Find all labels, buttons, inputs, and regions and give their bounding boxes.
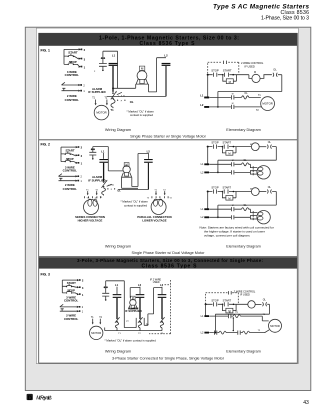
- bottom tie wire: [105, 328, 162, 331]
- control fuse stem wire: [102, 51, 104, 63]
- pushbutton START contact: [62, 284, 77, 287]
- svg-text:STOP: STOP: [211, 298, 218, 302]
- svg-text:Class 8536 Type S: Class 8536 Type S: [142, 263, 198, 269]
- M power contact 3: [238, 331, 240, 335]
- L2 power wire: [139, 298, 141, 318]
- M power contact 2: [231, 105, 234, 109]
- motor M1: [90, 326, 103, 339]
- coil M box label: [124, 163, 129, 167]
- svg-text:Elementary Diagram: Elementary Diagram: [226, 350, 261, 354]
- coil legs and bar: [136, 79, 149, 84]
- coil core box: [125, 173, 129, 177]
- svg-text:1-Phase, Size 00 to 3: 1-Phase, Size 00 to 3: [261, 16, 309, 22]
- row separator fig1/fig2: [39, 139, 298, 141]
- asterisk pointer arrow: [117, 92, 122, 94]
- wire: L2 bottom run: [118, 189, 148, 191]
- L2 terminal lug: [162, 63, 171, 64]
- coil M box label: [139, 66, 144, 70]
- 3-wire control: top wire to terminal 2: [62, 279, 77, 281]
- black header bar 1: [39, 33, 298, 46]
- svg-text:a b A: a b A: [108, 184, 114, 187]
- L1 rung wire: [209, 96, 260, 98]
- L1 terminal lug: [113, 294, 122, 295]
- svg-text:STOP: STOP: [211, 141, 218, 145]
- fuse clips: [101, 57, 103, 59]
- wire: left loop vertical: [60, 147, 62, 162]
- svg-text:IF SUPPLIED: IF SUPPLIED: [125, 309, 142, 313]
- motor B windings: [153, 199, 157, 206]
- OL heater 3: [242, 331, 249, 334]
- svg-text:Single Phase Starter w/ Single: Single Phase Starter w/ Single Voltage M…: [130, 135, 207, 139]
- wire: control tap from L3: [144, 288, 162, 326]
- svg-text:START: START: [68, 51, 78, 55]
- L2 terminal lug: [144, 159, 153, 160]
- svg-text:MOTOR: MOTOR: [270, 324, 280, 328]
- motor M1: [94, 105, 109, 120]
- svg-text:L2: L2: [200, 103, 204, 107]
- svg-text:START: START: [67, 281, 76, 285]
- svg-text:MOTOR: MOTOR: [262, 102, 272, 106]
- contact chain L3: [161, 318, 163, 320]
- svg-text:L2: L2: [164, 54, 168, 58]
- control fuse stem: [105, 281, 107, 293]
- black header bar 2: [39, 257, 298, 268]
- M power contact 2: [232, 170, 234, 174]
- wire: left loop vertical: [63, 49, 65, 64]
- svg-text:voltage, connect per coil diag: voltage, connect per coil diagram.: [204, 233, 250, 237]
- L1 rung: [209, 316, 269, 321]
- asterisk pointer arrow: [107, 184, 112, 186]
- control rung wire: [208, 146, 252, 148]
- svg-text:T4: T4: [170, 198, 172, 200]
- L1 rung: [209, 164, 257, 167]
- terminal 1: [76, 162, 78, 164]
- svg-text:43: 43: [303, 400, 309, 406]
- pushbutton STOP contact: [61, 159, 76, 163]
- coil legs and bar: [121, 173, 132, 178]
- wire: left drop: [205, 304, 207, 316]
- svg-text:HIGHER VOLTAGE: HIGHER VOLTAGE: [78, 218, 103, 222]
- terminal 1: [77, 293, 79, 295]
- svg-text:L1: L1: [112, 54, 116, 58]
- wire: coil to L1 control junction: [113, 84, 149, 92]
- motor A (series / higher voltage): [84, 200, 99, 215]
- wire: fuse top to control drop: [103, 51, 118, 88]
- terminal 3: [77, 286, 79, 288]
- control rung wire: [208, 75, 252, 79]
- contact M on L1 line: [112, 92, 114, 94]
- capacitor plates / separate control terminal: [99, 64, 107, 70]
- svg-text:MOTOR: MOTOR: [96, 111, 106, 115]
- svg-text:FIG. 2: FIG. 2: [41, 143, 51, 147]
- motor A windings: [88, 199, 92, 206]
- svg-text:STOP: STOP: [211, 69, 219, 73]
- capacitor plates: [102, 293, 109, 299]
- svg-text:START: START: [223, 298, 232, 302]
- M power contact 2: [214, 331, 216, 335]
- wire: L2 bottom run to motor T2: [107, 95, 166, 97]
- L2 terminal lug: [136, 294, 145, 295]
- wire: OL to L2 return: [215, 304, 269, 332]
- dual motor windings: [258, 167, 263, 171]
- svg-text:START: START: [223, 141, 232, 145]
- svg-text:CONTROL: CONTROL: [65, 73, 80, 77]
- L2 rung wire: [209, 106, 261, 108]
- terminal 2: [79, 48, 81, 50]
- svg-text:OL: OL: [130, 100, 134, 104]
- coil legs and bar: [128, 305, 138, 309]
- wire: control tap from L2: [149, 58, 167, 92]
- single phase jumper: [232, 318, 234, 331]
- outer gray frame: [25, 27, 311, 390]
- svg-text:L1: L1: [101, 149, 105, 153]
- inner white page box: [36, 28, 298, 364]
- coil core box: [131, 305, 135, 308]
- svg-text:CONTROL: CONTROL: [64, 317, 79, 321]
- svg-text:Class 8536 Type S: Class 8536 Type S: [140, 41, 196, 47]
- svg-text:McReynolds: McReynolds: [36, 396, 52, 402]
- 3-wire control: top wire to terminal 2: [64, 48, 79, 50]
- motor A jumper strip: [84, 196, 100, 198]
- OL heater chain L3: [160, 322, 163, 330]
- svg-text:OL: OL: [117, 190, 121, 193]
- pushbutton STOP contact: [64, 61, 79, 66]
- M aux contact: [223, 75, 237, 82]
- svg-text:CONTROL: CONTROL: [63, 169, 78, 173]
- wire: left drop: [207, 147, 209, 165]
- table border box: [39, 33, 298, 363]
- contact M on L1 line: [103, 181, 105, 183]
- wire: fuse to control drop: [106, 281, 137, 328]
- wire: OL to L2 return: [218, 75, 282, 107]
- svg-text:T3: T3: [87, 198, 89, 200]
- svg-text:L3: L3: [160, 283, 164, 287]
- svg-text:FIG. 1: FIG. 1: [41, 48, 51, 52]
- wire: left loop vertical: [61, 280, 63, 293]
- 2-wire control: switch wire 2: [62, 88, 79, 90]
- svg-text:Single Phase Starter w/ Dual V: Single Phase Starter w/ Dual Voltage Mot…: [131, 251, 205, 255]
- wire: OL to L2 return: [218, 147, 276, 173]
- svg-text:contact is supplied: contact is supplied: [130, 113, 153, 117]
- svg-text:M: M: [228, 152, 230, 156]
- svg-text:T1: T1: [110, 108, 114, 112]
- control rung wire: [206, 303, 248, 305]
- 3-wire control: top wire to terminal 2: [61, 146, 76, 148]
- L1 power wire: [103, 163, 105, 181]
- wire: control tap from L2: [130, 288, 140, 298]
- svg-text:START: START: [223, 69, 232, 73]
- row separator fig2/bar2: [39, 255, 298, 257]
- pushbutton START contact: [64, 54, 79, 59]
- coil M box label: [131, 296, 135, 300]
- svg-text:START: START: [65, 148, 74, 152]
- svg-text:Wiring Diagram: Wiring Diagram: [105, 245, 131, 249]
- L2 power wire: [165, 66, 167, 97]
- svg-text:L2: L2: [147, 149, 151, 153]
- svg-text:Elementary Diagram: Elementary Diagram: [226, 245, 261, 249]
- L1 power wire: [116, 298, 118, 318]
- svg-text:IF SUPPLIED: IF SUPPLIED: [88, 90, 105, 94]
- svg-text:OL: OL: [273, 68, 277, 72]
- pushbutton START contact: [61, 151, 76, 155]
- svg-text:3-Phase Starter Connected for: 3-Phase Starter Connected for Single Pha…: [112, 356, 225, 360]
- pushbutton STOP contact: [62, 290, 77, 294]
- 2-wire control: switch wire 1: [59, 174, 76, 177]
- wire: control tap from L2: [132, 154, 149, 187]
- svg-text:MOTOR: MOTOR: [91, 331, 101, 335]
- svg-text:L2: L2: [138, 283, 142, 287]
- L3 power wire: [161, 298, 163, 318]
- 2-wire control: switch wire 2: [60, 309, 77, 311]
- OL heater 2: [219, 331, 226, 334]
- coil M: [248, 301, 255, 308]
- svg-text:CONTROL: CONTROL: [65, 98, 80, 102]
- terminal 1: [79, 66, 81, 68]
- wire: coil left to drop: [108, 171, 138, 188]
- svg-text:IF USED: IF USED: [240, 294, 250, 297]
- L2 power wire: [147, 163, 149, 190]
- wire: fuse to control drop: [93, 147, 109, 171]
- 2-wire control: switch wire 1: [62, 82, 79, 85]
- 2-wire control: switch wire 1: [60, 304, 77, 307]
- elementary sub-diagram 2 (lower voltage): [201, 186, 277, 224]
- elementary: dashed 2-wire bypass: [208, 62, 239, 73]
- svg-text:Wiring Diagram: Wiring Diagram: [105, 128, 131, 132]
- svg-text:contact is supplied: contact is supplied: [124, 203, 147, 207]
- svg-text:* Marked “OL” if alarm contact: * Marked “OL” if alarm contact is suppli…: [105, 338, 157, 342]
- L1 power wire: [112, 66, 114, 92]
- dual voltage motor: [257, 166, 270, 179]
- svg-text:FIG. 3: FIG. 3: [41, 273, 51, 277]
- motor terminal bars: [252, 166, 254, 175]
- coil M circle: [137, 71, 147, 81]
- contact chain L2: [139, 318, 141, 320]
- L1 terminal lug: [99, 159, 108, 160]
- 2-wire control: switch wire 2: [59, 178, 76, 180]
- svg-text:IF USED: IF USED: [245, 64, 255, 68]
- terminal 3: [79, 58, 81, 60]
- contact chain L1: [116, 318, 118, 320]
- M power contact: [232, 162, 234, 166]
- M power contact: [231, 95, 234, 99]
- M power contact: [229, 314, 231, 318]
- motor B (parallel / lower voltage): [151, 200, 166, 215]
- M aux contact: [222, 147, 236, 153]
- coil core box: [140, 79, 144, 83]
- svg-text:D: D: [28, 395, 33, 402]
- terminal 3: [76, 154, 78, 156]
- svg-text:LOWER VOLTAGE: LOWER VOLTAGE: [142, 218, 166, 222]
- svg-text:M: M: [254, 71, 256, 74]
- elementary: dashed 2-wire bypass: [206, 293, 239, 304]
- svg-text:USED: USED: [153, 281, 160, 284]
- OL heater chain L1: [115, 322, 118, 330]
- L2 rung: [209, 330, 269, 333]
- coil M circle: [130, 299, 136, 305]
- svg-text:CONTROL: CONTROL: [64, 299, 79, 303]
- svg-text:Wiring Diagram: Wiring Diagram: [105, 350, 131, 354]
- wire: left drop L1: [207, 75, 209, 98]
- svg-text:CONTROL: CONTROL: [63, 187, 78, 191]
- svg-text:Elementary Diagram: Elementary Diagram: [226, 128, 261, 132]
- OL heater element: [102, 188, 106, 196]
- L1 terminal lug: [109, 63, 118, 64]
- motor elementary: [261, 97, 275, 111]
- L3 terminal lug: [158, 294, 167, 295]
- control fuse stem: [92, 147, 94, 152]
- M aux contact: [223, 304, 237, 310]
- coil M circle: [123, 166, 130, 173]
- svg-text:L1: L1: [200, 93, 204, 97]
- capacitor plates: [89, 152, 96, 158]
- OL heater chain L2: [138, 322, 141, 330]
- junction node: [112, 87, 114, 89]
- svg-text:a b A: a b A: [118, 95, 125, 98]
- footer logo square D: [27, 394, 33, 400]
- motor elementary: [269, 319, 282, 332]
- elementary sub-diagram 1 (higher voltage): [201, 141, 277, 179]
- OL heater element: [111, 99, 115, 108]
- svg-text:L1: L1: [115, 283, 119, 287]
